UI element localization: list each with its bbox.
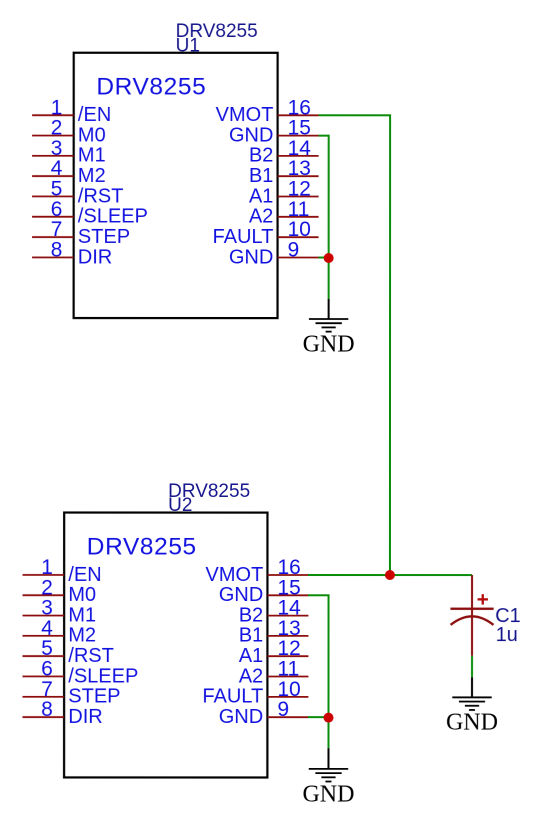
svg-text:M2: M2 bbox=[78, 165, 106, 187]
ground symbol GND below U1 bbox=[303, 299, 355, 357]
ground symbol GND below C1 bbox=[446, 677, 498, 736]
U2 pin 15 GND bbox=[219, 576, 309, 606]
svg-text:GND: GND bbox=[219, 706, 263, 728]
svg-text:VMOT: VMOT bbox=[205, 564, 263, 586]
svg-text:A1: A1 bbox=[249, 185, 273, 207]
svg-text:VMOT: VMOT bbox=[216, 104, 274, 126]
U1 pin 16 VMOT bbox=[216, 96, 319, 126]
U1 pin 14 B2 bbox=[249, 137, 319, 167]
U2 pin 1 /EN bbox=[23, 556, 102, 586]
junction U1 GND net bbox=[324, 253, 334, 263]
wire U1 GND pin9 to junction bbox=[319, 257, 329, 259]
svg-text:U2: U2 bbox=[168, 495, 192, 516]
U2 pin 11 A2 bbox=[239, 657, 309, 687]
svg-text:GND: GND bbox=[229, 246, 273, 268]
svg-text:/EN: /EN bbox=[68, 564, 101, 586]
svg-text:M1: M1 bbox=[78, 145, 106, 167]
U2 pin 16 VMOT bbox=[205, 556, 308, 586]
U2 pin 3 M1 bbox=[23, 597, 97, 627]
svg-text:M0: M0 bbox=[78, 124, 106, 146]
svg-text:DIR: DIR bbox=[68, 706, 102, 728]
U1 pin 12 A1 bbox=[249, 177, 319, 207]
IC U2 DRV8255 body bbox=[64, 513, 267, 778]
U2 pin 9 GND bbox=[219, 698, 309, 728]
svg-text:B2: B2 bbox=[249, 145, 273, 167]
svg-text:B1: B1 bbox=[249, 165, 273, 187]
wire U1 GND pin15 down to ground bbox=[319, 136, 329, 299]
svg-text:1u: 1u bbox=[496, 624, 518, 646]
svg-text:DIR: DIR bbox=[78, 246, 112, 268]
svg-text:/RST: /RST bbox=[78, 185, 124, 207]
svg-text:GND: GND bbox=[229, 124, 273, 146]
wire U1 VMOT pin16 to vertical bus bbox=[318, 115, 390, 575]
U2 pin 13 B1 bbox=[239, 617, 309, 647]
wire capacitor C1 to ground bbox=[471, 656, 473, 678]
U2 pin 7 STEP bbox=[22, 678, 120, 708]
U2 pin 8 DIR bbox=[22, 698, 102, 728]
U2 pin 12 A1 bbox=[239, 637, 309, 667]
svg-text:9: 9 bbox=[277, 698, 289, 721]
U2 pin 5 /RST bbox=[23, 637, 114, 667]
U1 pin 2 M0 bbox=[32, 117, 106, 147]
svg-text:U1: U1 bbox=[176, 35, 200, 56]
U1 pin 8 DIR bbox=[32, 238, 112, 268]
svg-text:FAULT: FAULT bbox=[213, 226, 274, 248]
U1 pin 13 B1 bbox=[249, 157, 319, 187]
U2 pin 2 M0 bbox=[23, 576, 97, 606]
svg-text:8: 8 bbox=[41, 698, 53, 721]
svg-text:8: 8 bbox=[51, 238, 63, 261]
svg-text:A2: A2 bbox=[249, 206, 273, 228]
U1 pin 6 /SLEEP bbox=[32, 198, 148, 228]
svg-text:GND: GND bbox=[302, 781, 354, 807]
ground symbol GND below U2 bbox=[302, 748, 354, 807]
svg-text:DRV8255: DRV8255 bbox=[96, 74, 206, 101]
wire U2 GND pin15 down to ground bbox=[308, 595, 329, 748]
svg-text:STEP: STEP bbox=[68, 686, 120, 708]
U1 pin 10 FAULT bbox=[213, 218, 319, 248]
capacitor C1 polarized bbox=[450, 575, 493, 656]
svg-text:9: 9 bbox=[288, 239, 300, 262]
U1 pin 15 GND bbox=[229, 117, 319, 147]
svg-text:DRV8255: DRV8255 bbox=[87, 533, 197, 560]
svg-text:/SLEEP: /SLEEP bbox=[68, 665, 138, 687]
svg-text:A1: A1 bbox=[239, 645, 263, 667]
U2 pin 10 FAULT bbox=[202, 678, 308, 708]
svg-text:FAULT: FAULT bbox=[202, 686, 263, 708]
svg-text:GND: GND bbox=[446, 710, 498, 736]
U1 pin 3 M1 bbox=[32, 137, 106, 167]
U1 pin 11 A2 bbox=[249, 198, 319, 228]
svg-text:/RST: /RST bbox=[68, 645, 114, 667]
U1 pin 5 /RST bbox=[32, 177, 123, 207]
U2 pin 4 M2 bbox=[23, 617, 97, 647]
U1 pin 1 /EN bbox=[32, 96, 111, 126]
svg-text:GND: GND bbox=[303, 331, 355, 357]
svg-text:M1: M1 bbox=[68, 604, 96, 626]
svg-text:B1: B1 bbox=[239, 625, 263, 647]
svg-text:M2: M2 bbox=[68, 625, 96, 647]
U2 pin 6 /SLEEP bbox=[23, 657, 139, 687]
svg-text:STEP: STEP bbox=[78, 226, 130, 248]
junction VMOT net at C1 branch bbox=[385, 570, 395, 580]
wire U2 GND pin9 to junction bbox=[308, 716, 329, 718]
U2 pin 14 B2 bbox=[239, 597, 309, 627]
svg-text:B2: B2 bbox=[239, 604, 263, 626]
U1 pin 9 GND bbox=[229, 238, 319, 268]
U1 pin 4 M2 bbox=[32, 157, 106, 187]
svg-text:M0: M0 bbox=[68, 584, 96, 606]
svg-text:/SLEEP: /SLEEP bbox=[78, 206, 148, 228]
wire U2 VMOT pin16 to capacitor C1 bbox=[308, 574, 472, 576]
IC U1 DRV8255 body bbox=[74, 53, 278, 318]
U1 pin 7 STEP bbox=[32, 218, 130, 248]
svg-text:/EN: /EN bbox=[78, 104, 111, 126]
svg-text:GND: GND bbox=[219, 584, 263, 606]
svg-text:A2: A2 bbox=[239, 665, 263, 687]
junction U2 GND net bbox=[323, 713, 333, 723]
